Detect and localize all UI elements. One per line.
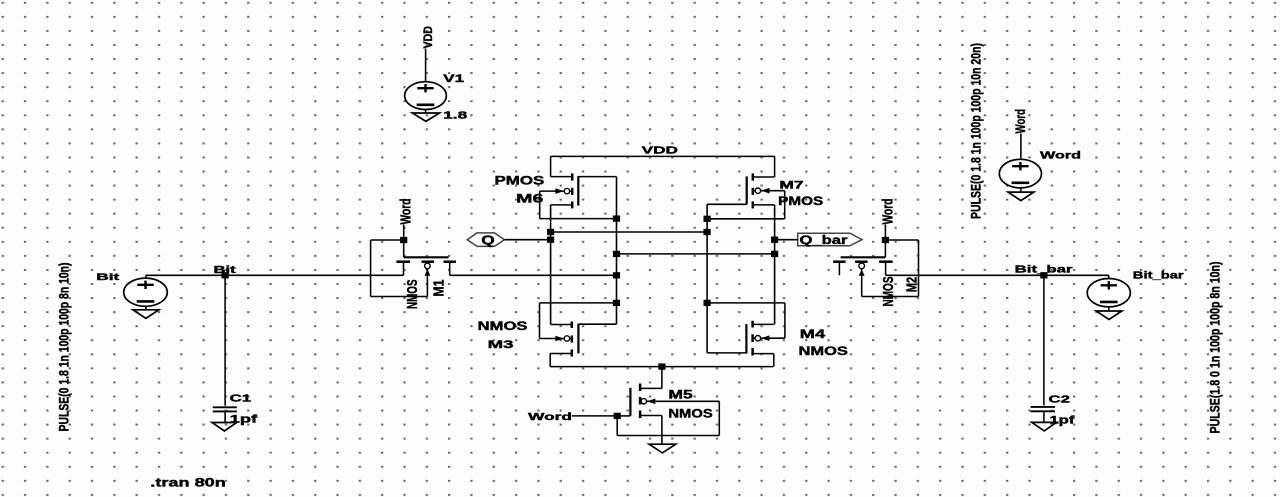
port flag Q (467, 233, 504, 247)
wire M4 gate lead (707, 352, 746, 354)
svg-text:Word: Word (880, 199, 896, 225)
svg-text:Word: Word (399, 199, 415, 225)
transistor M4 source stub (753, 353, 774, 355)
transistor M2 bulk stub (861, 266, 863, 297)
svg-text:C1: C1 (230, 393, 252, 405)
port flag Q_bar (798, 233, 862, 246)
transistor M4 channel (751, 321, 754, 328)
wire M7 bulk drop (784, 191, 786, 219)
svg-text:PULSE(0 1.8 1n 100p 100p 10n 2: PULSE(0 1.8 1n 100p 100p 10n 20n) (968, 43, 984, 219)
wire M5 gate lead (617, 415, 630, 417)
voltage source V1 (405, 82, 447, 110)
svg-text:VDD: VDD (421, 26, 435, 49)
wire Bit line left segment (146, 274, 404, 276)
svg-text:VDD: VDD (642, 146, 678, 157)
transistor M7 source stub (754, 176, 775, 178)
wire M7 source to VDD (774, 156, 776, 177)
junction (614, 413, 621, 419)
junction (547, 229, 554, 235)
svg-text:NMOS: NMOS (478, 319, 528, 333)
ground (below C2) (1032, 422, 1057, 431)
junction (882, 237, 889, 243)
wire Word to M2 (884, 225, 886, 241)
ground (below C1) (212, 423, 237, 432)
svg-text:1pf: 1pf (1049, 414, 1075, 426)
svg-text:PULSE(0 1.8 1n 100p 100p 8n 10: PULSE(0 1.8 1n 100p 100p 8n 10n) (56, 263, 72, 432)
wire source top stub right (1108, 275, 1110, 279)
svg-text:Word: Word (528, 411, 572, 423)
ground (below Bit_bar source) (1108, 307, 1110, 311)
transistor M6 bulk stub (540, 190, 571, 192)
wire M1 gate drop (403, 240, 405, 257)
transistor M7 gate bar (746, 176, 748, 204)
voltage source Word (999, 159, 1041, 188)
transistor M1 gate bar (404, 256, 449, 258)
wire to C2 (1043, 275, 1045, 405)
wire M3 gate lead (578, 323, 616, 325)
svg-text:1.8: 1.8 (443, 110, 467, 122)
svg-text:NMOS: NMOS (668, 409, 713, 421)
svg-text:Bit_bar: Bit_bar (1133, 270, 1184, 282)
junction (613, 272, 620, 278)
wire M5 source drop (661, 416, 663, 445)
transistor M5 drain stub (641, 387, 662, 389)
transistor M2 channel (833, 260, 846, 263)
transistor M6 source stub (551, 176, 571, 178)
transistor M2 gate bar (841, 256, 886, 258)
transistor M3 channel (571, 322, 574, 329)
ground (below V1) (425, 110, 427, 114)
svg-text:NMOS: NMOS (405, 279, 421, 309)
capacitor C1 (213, 406, 237, 408)
svg-text:Q: Q (481, 234, 495, 248)
svg-text:Bit_bar: Bit_bar (1015, 264, 1073, 276)
wire Q_bar flag lead (775, 239, 798, 241)
ground (below Word source) (1020, 188, 1022, 192)
wire M4 bulk drop (784, 303, 786, 338)
svg-text:M4: M4 (800, 329, 826, 341)
wire M4 source drop (773, 354, 775, 367)
wire node Q_bar rail (M7 drain to M4 drain) (774, 205, 776, 325)
transistor M5 bulk stub (641, 400, 720, 402)
wire M2 bulk loop (862, 296, 919, 298)
transistor M1 bulk stub (426, 266, 428, 297)
wire VDD rail (551, 155, 775, 157)
wire M5 drain drop (661, 367, 663, 389)
svg-text:Bit: Bit (214, 265, 238, 276)
junction (1040, 272, 1047, 278)
svg-text:Bit: Bit (96, 272, 121, 283)
transistor M1 channel (396, 260, 410, 263)
ground (below M5) (649, 444, 676, 453)
wire bulk link left lower (540, 302, 617, 304)
wire M6 source to VDD (550, 156, 552, 176)
transistor M4 gate bar (745, 324, 747, 353)
transistor M6 channel (571, 173, 574, 180)
svg-text:1pf: 1pf (230, 414, 258, 426)
junction (613, 215, 620, 221)
transistor M6 drain stub (551, 204, 571, 206)
wire (425, 49, 427, 83)
svg-text:NMOS: NMOS (799, 346, 849, 358)
wire M6 gate lead (578, 176, 616, 178)
junction (222, 272, 229, 278)
wire M3 bulk drop (539, 303, 541, 339)
transistor M7 drain stub (754, 204, 775, 206)
wire Q flag lead (505, 239, 551, 241)
wire M2 drain drop (885, 262, 887, 276)
wire M1 source drop (449, 262, 451, 276)
svg-text:PULSE(1.8 0 1n 100p 100p 8n 10: PULSE(1.8 0 1n 100p 100p 8n 10n) (1207, 262, 1223, 434)
voltage source Bit (124, 278, 168, 306)
wire common source rail (550, 366, 773, 368)
transistor M3 bulk stub (540, 338, 571, 340)
transistor M3 drain stub (551, 324, 571, 326)
wire cross-couple Q to right gates (551, 231, 708, 233)
wire M6 bulk drop (539, 191, 541, 219)
wire C1 to ground (224, 412, 226, 422)
svg-text:PMOS: PMOS (495, 176, 545, 188)
svg-text:C2: C2 (1049, 394, 1071, 406)
wire bulk link left (to gate rail) (540, 218, 617, 220)
wire M1 drain drop (403, 262, 405, 276)
wire right gate rail (706, 204, 708, 353)
capacitor C2 (1031, 406, 1055, 408)
transistor M6 gate bar (577, 176, 579, 206)
wire C2 to ground (1043, 412, 1045, 422)
voltage source Bit_bar (1087, 279, 1130, 307)
ground (below Bit source) (145, 306, 147, 310)
wire to C1 (224, 275, 226, 406)
svg-text:M5: M5 (668, 390, 693, 402)
wire Bit line to gate rail (450, 274, 617, 276)
transistor M5 source stub (641, 415, 662, 417)
junction (613, 251, 620, 257)
junction (771, 237, 778, 243)
wire Word source top (1020, 134, 1022, 160)
wire node Q rail (M6 drain to M3 drain) (550, 205, 552, 325)
wire Bit_bar line (M2 to source) (886, 274, 1109, 276)
svg-text:M2: M2 (905, 277, 921, 293)
junction (704, 216, 711, 222)
svg-text:M7: M7 (779, 179, 803, 191)
transistor M3 gate bar (577, 324, 579, 354)
transistor M7 channel (752, 173, 755, 180)
wire M7 gate lead (707, 203, 747, 205)
junction (658, 363, 665, 369)
wire left gate rail (616, 177, 618, 325)
junction (613, 300, 620, 306)
svg-text:M1: M1 (431, 280, 447, 297)
wire M2 gate drop (884, 240, 886, 257)
junction (704, 229, 711, 235)
wire source top stub (145, 275, 147, 279)
svg-text:.tran 80n: .tran 80n (150, 476, 226, 490)
svg-text:Word: Word (1040, 149, 1081, 161)
wire Word line to M5 (572, 415, 617, 417)
junction (400, 237, 407, 243)
transistor M4 drain stub (753, 323, 774, 325)
svg-text:Word: Word (1012, 109, 1028, 134)
junction (547, 237, 554, 243)
wire M5 bulk loop (616, 416, 618, 436)
svg-text:M3: M3 (488, 339, 514, 351)
wire cross-couple left gates to Q_bar (617, 253, 775, 255)
wire M3 source drop (549, 354, 551, 367)
transistor M3 source stub (550, 353, 571, 355)
svg-text:NMOS: NMOS (881, 276, 897, 306)
wire M2 source drop (838, 262, 840, 276)
wire bulk link right (to gate rail) (707, 218, 785, 220)
transistor M7 bulk stub (754, 190, 785, 192)
transistor M5 gate bar (629, 388, 631, 416)
junction (704, 300, 711, 306)
wire bulk link right lower (707, 302, 785, 304)
wire M1 bulk loop (371, 296, 428, 298)
transistor M5 channel (639, 384, 642, 392)
wire Word to M1 (403, 225, 405, 241)
svg-text:V1: V1 (443, 73, 464, 85)
junction (771, 251, 778, 257)
svg-text:Q_bar: Q_bar (800, 235, 849, 247)
transistor M4 bulk stub (753, 337, 785, 339)
